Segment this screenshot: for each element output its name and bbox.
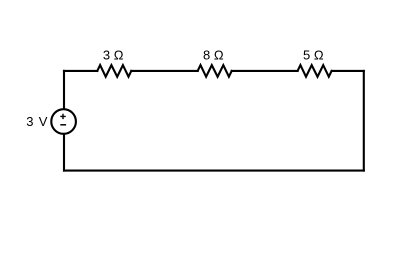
- svg-text:3 V: 3 V: [26, 114, 48, 129]
- voltage source V1 circle: [51, 109, 76, 134]
- wire top segment: R3 to top-right corner: [332, 70, 364, 72]
- svg-text:8 Ω: 8 Ω: [203, 48, 224, 63]
- resistor R1: [97, 65, 131, 77]
- wire left upper: top-left corner to source top: [63, 71, 65, 109]
- resistor R2: [198, 65, 232, 77]
- wire left lower: source bottom to bottom-left corner: [63, 134, 65, 170]
- voltage source plus sign: [60, 114, 65, 119]
- wire top segment: R2 to R3: [232, 70, 298, 72]
- voltage source minus sign: [60, 124, 66, 126]
- wire top segment: R1 to R2: [131, 70, 197, 72]
- svg-text:5 Ω: 5 Ω: [303, 48, 324, 63]
- wire bottom side: [64, 170, 364, 172]
- svg-text:3 Ω: 3 Ω: [103, 48, 124, 63]
- resistor R3: [298, 65, 332, 77]
- wire right side: [363, 71, 365, 171]
- wire top segment: source top node to R1: [64, 70, 97, 72]
